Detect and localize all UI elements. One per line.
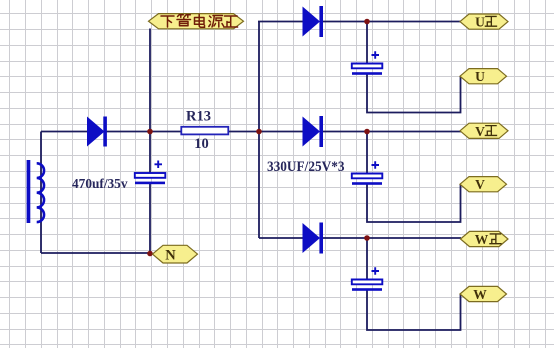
- wire row2 diode D4 to resistor R13: [106, 131, 181, 133]
- wire row1 bus-to-diode D1: [258, 21, 303, 23]
- net label V+ (V正): [460, 123, 508, 139]
- capacitor C4 (W phase): [352, 267, 383, 291]
- diode D1 (row1): [303, 6, 324, 37]
- wire node W+ down to capacitor C4: [366, 238, 368, 280]
- wire left branch vertical through inductor L1: [40, 132, 42, 254]
- svg-text:N: N: [165, 247, 176, 263]
- resistor R13 value text 10: [194, 136, 209, 152]
- svg-text:470uf/35v: 470uf/35v: [72, 177, 128, 192]
- glyph 正: [224, 16, 238, 27]
- glyph 电: [195, 15, 205, 28]
- glyph 正 small: [485, 126, 497, 136]
- net label V: [460, 177, 507, 193]
- junction node U+: [364, 19, 370, 25]
- junction node N: [147, 251, 153, 257]
- junction node resistor to bus: [256, 129, 262, 135]
- glyph 下: [161, 16, 174, 27]
- junction node V+: [364, 129, 370, 135]
- net label N: [153, 245, 198, 263]
- wire row3 diode D3 to node W+: [323, 237, 462, 239]
- capacitors C2-C4 value text 330UF/25V*3: [267, 159, 345, 175]
- wire row2 left corner to diode D4: [41, 131, 88, 133]
- diode D3 (row3): [303, 223, 324, 254]
- svg-text:10: 10: [194, 136, 209, 152]
- svg-text:U: U: [475, 15, 485, 30]
- svg-text:330UF/25V*3: 330UF/25V*3: [267, 159, 345, 175]
- wire row2 resistor R13 to bus: [229, 131, 260, 133]
- capacitor C1 (470uf/35v): [135, 161, 166, 185]
- wire capacitor C4 bottom leg: [367, 291, 461, 331]
- net label W: [460, 286, 507, 302]
- glyph 管: [177, 15, 191, 26]
- wire bottom to node N: [41, 252, 152, 254]
- wire row2 bus to diode D2: [259, 131, 303, 133]
- capacitor C2 (U phase): [352, 51, 383, 75]
- wire from power port to node at row2: [149, 29, 151, 132]
- wire capacitor C3 bottom leg: [367, 185, 461, 223]
- net label U+ (U正): [460, 14, 508, 30]
- wire row1 diode D1 to node U+: [323, 21, 462, 23]
- wire row3 bus to diode D3: [259, 237, 303, 239]
- glyph 正 small: [485, 16, 497, 26]
- resistor R13: [181, 127, 228, 135]
- junction node at power port / row2: [147, 129, 153, 135]
- capacitor C1 value text 470uf/35v: [72, 177, 128, 192]
- wire node row2 down to capacitor C1: [149, 132, 151, 174]
- junction node W+: [364, 235, 370, 241]
- diode D2 (row2): [303, 116, 324, 147]
- wire capacitor C2 bottom leg: [367, 75, 461, 113]
- wire node U+ down to capacitor C2: [366, 22, 368, 65]
- resistor R13 designator text: [186, 109, 211, 125]
- svg-text:U: U: [475, 69, 485, 84]
- wire row2 diode D2 to node V+: [323, 131, 462, 133]
- wire capacitor C1 down to node N: [149, 184, 151, 253]
- svg-text:W: W: [475, 232, 489, 247]
- wire vertical bus joining three diode anodes: [258, 22, 260, 239]
- svg-text:W: W: [473, 287, 487, 302]
- glyph 源: [209, 16, 224, 28]
- svg-text:R13: R13: [186, 109, 211, 125]
- inductor L1: [27, 160, 44, 223]
- net label U: [460, 69, 507, 85]
- capacitor C3 (V phase): [352, 161, 383, 185]
- wire node V+ down to capacitor C3: [366, 132, 368, 175]
- svg-text:V: V: [475, 124, 485, 139]
- diode D4 (left, on row2): [87, 117, 107, 147]
- net label W+ (W正): [461, 231, 509, 247]
- svg-text:V: V: [475, 177, 485, 192]
- glyph 正 small: [489, 234, 501, 244]
- power port label 下管电源正: [149, 14, 244, 29]
